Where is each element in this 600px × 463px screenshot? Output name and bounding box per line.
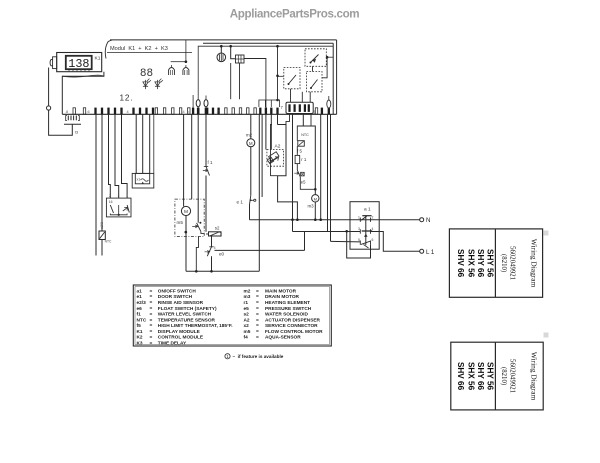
svg-text:a 1: a 1 [364, 207, 371, 213]
N bus wire [250, 219, 420, 221]
svg-text:=: = [150, 301, 153, 306]
svg-text:f4: f4 [244, 335, 249, 341]
scan artifact gray square 2 [544, 333, 549, 338]
svg-text:1: 1 [358, 216, 360, 220]
svg-text:s2: s2 [244, 312, 250, 318]
wire contact 4 to L1 [371, 232, 420, 252]
svg-text:AppliancePartsPros.com: AppliancePartsPros.com [230, 8, 360, 21]
wire from display to service comb [48, 68, 50, 106]
svg-text:.4: .4 [182, 110, 185, 114]
relay K2 contact dashed box [284, 68, 300, 89]
svg-text:M: M [184, 209, 188, 215]
wires to actuator dispenser A2 [261, 114, 263, 197]
A2 actuator dashed box [267, 150, 284, 167]
svg-text:=: = [150, 324, 153, 329]
svg-text:m2: m2 [246, 133, 253, 138]
svg-text:HEATING ELEMENT: HEATING ELEMENT [265, 300, 310, 306]
module bottom / connector baseline [62, 113, 336, 115]
svg-text:DRAIN MOTOR: DRAIN MOTOR [265, 294, 300, 300]
svg-text:=: = [150, 289, 153, 294]
svg-text:SHY 66: SHY 66 [476, 362, 485, 391]
svg-text:=: = [256, 324, 259, 329]
svg-text:=: = [150, 336, 153, 341]
svg-text:NTC: NTC [137, 317, 147, 323]
wire from top to connector x7 [277, 46, 279, 100]
relay K3 dashed box [305, 49, 326, 67]
NTC thermistor box [298, 141, 305, 147]
wire junction to drain motor [314, 189, 316, 194]
heater column feed from pin [303, 114, 315, 189]
svg-text:r1: r1 [244, 300, 249, 306]
flow control motor m5 dashed box [175, 199, 204, 236]
speaker h2 [229, 45, 232, 48]
wire pin to main motor m2 [250, 114, 252, 139]
module K1+K2+K3 outer boundary [62, 72, 104, 115]
door switch e1 [250, 195, 251, 204]
svg-text:Wiring Diagram: Wiring Diagram [530, 352, 539, 401]
svg-text:1: 1 [126, 194, 128, 198]
svg-text:e6: e6 [137, 306, 143, 312]
display left plug [53, 57, 57, 69]
seven-segment display window [66, 56, 92, 69]
title block upper [449, 229, 542, 297]
svg-text:e5: e5 [244, 306, 250, 312]
svg-text:TIME DELAY: TIME DELAY [158, 341, 187, 347]
svg-text:=: = [256, 289, 259, 294]
svg-text:.2: .2 [186, 111, 189, 115]
high limit thermostat f5 wire [296, 146, 298, 155]
svg-text:=: = [150, 318, 153, 323]
svg-text:=: = [256, 336, 259, 341]
stub x7 to A2 feed [286, 114, 290, 124]
svg-text:4: 4 [127, 110, 129, 114]
display bottom connection squiggle [62, 75, 104, 77]
svg-text:m5: m5 [244, 329, 251, 335]
svg-text:DISPLAY MODULE: DISPLAY MODULE [158, 329, 200, 335]
svg-text:2: 2 [109, 194, 111, 198]
wire to pin inside module [192, 95, 194, 108]
wire to water level switch f1 [205, 114, 207, 166]
wire bus to a1 contact 3 [292, 220, 294, 232]
legend box [133, 285, 331, 346]
svg-text:a1: a1 [137, 288, 143, 294]
svg-text:e1: e1 [137, 294, 143, 300]
water solenoid s2 [209, 232, 222, 236]
wire into relay box2 [278, 75, 284, 77]
svg-text:SHY 56: SHY 56 [486, 249, 495, 278]
svg-text:6: 6 [372, 238, 374, 242]
svg-text:e5: e5 [301, 179, 306, 184]
svg-text:3: 3 [358, 227, 360, 231]
wires to NTC sensor [95, 114, 97, 255]
actuator dispenser A2 outer box [278, 125, 287, 176]
water level switch f1 [204, 166, 208, 168]
fuse oval pin [327, 100, 331, 108]
wire s2 to e0 [211, 236, 213, 247]
relay contact dashed box 3 [307, 72, 323, 92]
wire riser from bottom bus to pin [196, 237, 198, 272]
svg-text:DOOR SWITCH: DOOR SWITCH [158, 294, 193, 300]
svg-text:x2: x2 [244, 323, 250, 329]
svg-text:MAIN MOTOR: MAIN MOTOR [265, 288, 297, 294]
buzzer h1 [198, 46, 333, 95]
elbow from junction to box3 right [322, 57, 327, 78]
A2 wire to N bus [278, 176, 298, 220]
svg-text:1: 1 [118, 194, 120, 198]
svg-text:PRESSURE SWITCH: PRESSURE SWITCH [265, 306, 312, 312]
LED symbol 1 [143, 82, 148, 86]
svg-text:=: = [256, 295, 259, 300]
svg-text:=: = [150, 313, 153, 318]
svg-text:=: = [150, 330, 153, 335]
svg-text:NTC: NTC [105, 239, 112, 243]
svg-text:4: 4 [372, 227, 374, 231]
wires from sounders to pins [230, 63, 232, 99]
svg-text:K1: K1 [95, 56, 101, 62]
svg-text:WATER SOLENOID: WATER SOLENOID [265, 312, 308, 318]
svg-text:5602049921: 5602049921 [509, 359, 516, 393]
svg-text:N: N [426, 217, 430, 224]
svg-text:.6: .6 [87, 110, 90, 114]
svg-text:=: = [256, 313, 259, 318]
svg-text:SHX 56: SHX 56 [467, 362, 476, 391]
svg-text:e2/3: e2/3 [100, 222, 104, 229]
svg-text:Wiring Diagram: Wiring Diagram [530, 239, 539, 288]
svg-text:138: 138 [68, 57, 89, 71]
terminal circle [47, 106, 51, 110]
svg-text:f1: f1 [137, 312, 142, 318]
wire e1 to N bus [249, 205, 251, 220]
svg-text:M: M [314, 197, 317, 202]
x7 connector bracket [259, 100, 280, 107]
svg-text:ON/OFF SWITCH: ON/OFF SWITCH [158, 288, 197, 294]
svg-text:e 1: e 1 [237, 200, 244, 205]
svg-text:=: = [256, 330, 259, 335]
svg-text:K1: K1 [137, 329, 143, 335]
svg-text:L 1: L 1 [426, 249, 435, 256]
svg-text:e0: e0 [219, 252, 225, 257]
svg-text:r 1: r 1 [301, 157, 307, 162]
svg-text:HIGH LIMIT THERMOSTAT, 185°F.: HIGH LIMIT THERMOSTAT, 185°F. [158, 323, 233, 329]
wires to service connector x2 [135, 114, 137, 173]
svg-text:TEMPERATURE SENSOR: TEMPERATURE SENSOR [158, 317, 216, 323]
L1 feed wire [331, 240, 361, 243]
scan artifact gray square 1 [544, 231, 549, 236]
svg-text:(8210): (8210) [500, 254, 507, 272]
wire e0 branch joining [304, 232, 306, 251]
svg-text:m5: m5 [177, 220, 184, 225]
svg-text:=: = [256, 301, 259, 306]
svg-text:– if feature is available: – if feature is available [233, 354, 284, 359]
wire e5 to m3 junction [300, 177, 315, 189]
svg-text:.8: .8 [65, 110, 68, 114]
svg-text:AQUA-SENSOR: AQUA-SENSOR [265, 335, 301, 341]
svg-text:f 5: f 5 [297, 148, 302, 153]
svg-text:CONTROL MODULE: CONTROL MODULE [158, 335, 203, 341]
heating element r1 [295, 155, 300, 163]
terminal L1 [420, 249, 424, 253]
module top edge [110, 39, 337, 41]
svg-text:s2: s2 [215, 226, 220, 231]
svg-text:4: 4 [214, 246, 216, 250]
svg-text:12.: 12. [120, 94, 134, 103]
svg-text:(8210): (8210) [500, 367, 507, 385]
footnote if feature is available [225, 354, 230, 359]
wire m3 to N bus [314, 202, 316, 220]
m5 internal switch [199, 222, 201, 224]
bottom bus wire [186, 270, 259, 272]
float switch e0 [209, 246, 213, 248]
svg-text:SHV 66: SHV 66 [456, 249, 465, 278]
svg-text:K2: K2 [137, 335, 143, 341]
svg-text:WATER LEVEL SWITCH: WATER LEVEL SWITCH [158, 312, 212, 318]
svg-text:FLOW CONTROL MOTOR: FLOW CONTROL MOTOR [265, 329, 323, 335]
display segment leads [68, 69, 70, 71]
svg-text:=: = [256, 318, 259, 323]
connector pins of module [94, 108, 96, 115]
crystal component pair [171, 61, 186, 63]
rinse aid sensor e2/3 box [106, 198, 131, 217]
svg-text:x1: x1 [137, 178, 141, 182]
svg-text:f5: f5 [137, 323, 142, 329]
svg-text:f 1: f 1 [208, 160, 213, 165]
main motor m2 [247, 139, 255, 147]
svg-text:m3: m3 [308, 204, 315, 209]
pressure switch e5 [297, 170, 300, 177]
a1 bypass loop [347, 231, 371, 258]
wires to rinse aid sensor e2/3 [109, 114, 111, 198]
LED symbol 2 [155, 82, 160, 86]
svg-text:A2: A2 [275, 143, 281, 149]
svg-text:16: 16 [109, 200, 113, 204]
a1 ganged link line [365, 216, 367, 246]
connector x7 block [286, 102, 313, 113]
svg-text:SERVICE CONNECTOR: SERVICE CONNECTOR [265, 323, 318, 329]
module right edge wires down [320, 114, 322, 219]
junction on right edge [326, 56, 329, 59]
svg-text:FLOAT SWITCH (SAFETY): FLOAT SWITCH (SAFETY) [158, 306, 217, 312]
terminal N [420, 218, 424, 222]
svg-text:=: = [150, 342, 153, 347]
NTC temperature sensor box [99, 231, 105, 240]
m5 bottom junction [185, 216, 187, 272]
svg-text:=: = [150, 295, 153, 300]
service connector x2 box [132, 173, 154, 188]
svg-text:M: M [249, 141, 253, 146]
svg-text:2: 2 [372, 216, 374, 220]
svg-text:m2: m2 [244, 288, 251, 294]
link relay box1 to box3 [312, 66, 314, 71]
stub x7 to heater jog [310, 114, 312, 126]
display module K1 box [57, 53, 102, 72]
svg-text:SHY 66: SHY 66 [476, 249, 485, 278]
svg-text:=: = [150, 307, 153, 312]
speaker wire to pin [244, 59, 266, 115]
title block lower [451, 342, 543, 410]
svg-text:e2/3: e2/3 [137, 300, 147, 306]
on/off switch a1 box [350, 202, 379, 250]
fuse pins with oval bodies [197, 108, 200, 115]
svg-text:m3: m3 [244, 294, 251, 300]
svg-text:=: = [256, 307, 259, 312]
wires to flow control motor m5 [183, 114, 185, 206]
svg-text:K3: K3 [137, 341, 143, 347]
service connector comb t3 [64, 123, 81, 125]
drain motor m3 [312, 195, 319, 202]
heater column left wire [292, 114, 294, 219]
wire m2 to door switch e1 [250, 147, 252, 196]
svg-text:NTC: NTC [301, 133, 309, 137]
svg-text:SHX 56: SHX 56 [467, 249, 476, 278]
module right edge (double line) [336, 40, 338, 114]
motor m5 circle [181, 206, 190, 215]
svg-text:88: 88 [140, 68, 153, 80]
svg-text:A2: A2 [244, 317, 250, 323]
wires from relay boxes to connector [290, 89, 292, 102]
svg-text:Modul K1 + K2 + K3: Modul K1 + K2 + K3 [110, 46, 168, 52]
svg-text:.7: .7 [217, 110, 220, 114]
svg-text:SHY 56: SHY 56 [486, 362, 495, 391]
svg-text:RINSE AID SENSOR: RINSE AID SENSOR [158, 300, 204, 306]
svg-text:SHV 66: SHV 66 [456, 362, 465, 391]
svg-text:ACTUATOR DISPENSER: ACTUATOR DISPENSER [265, 317, 321, 323]
svg-text:5602049921: 5602049921 [509, 246, 516, 280]
